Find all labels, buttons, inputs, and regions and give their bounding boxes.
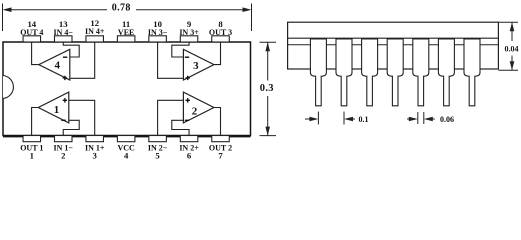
wire U2 output to pin 7 bbox=[214, 108, 221, 136]
package side view body bbox=[288, 22, 499, 69]
side view ledge line bbox=[288, 44, 499, 46]
op-amp U4 bbox=[39, 49, 70, 80]
dimension 0.04 (body thickness, right of side view) bbox=[498, 22, 518, 70]
notch (pin-1 index) bbox=[3, 76, 13, 99]
pin 8 label OUT 3 bbox=[209, 19, 232, 37]
dimension 0.3 (package width, right of top view) bbox=[260, 42, 277, 135]
pin 14 label OUT 4 bbox=[20, 19, 43, 37]
op-amp U3 bbox=[183, 49, 214, 80]
svg-text:IN 3−: IN 3− bbox=[148, 28, 168, 37]
wire pin 13 to U4 inverting input bbox=[63, 42, 79, 57]
pin 5 label IN 2- bbox=[148, 144, 168, 161]
pin 5 box bbox=[149, 136, 167, 142]
svg-text:OUT 4: OUT 4 bbox=[20, 28, 43, 37]
svg-text:3: 3 bbox=[193, 60, 199, 72]
pin 3 box bbox=[86, 136, 104, 142]
svg-text:1: 1 bbox=[54, 104, 60, 116]
pin 2 box bbox=[55, 136, 73, 142]
svg-text:IN 3+: IN 3+ bbox=[179, 28, 199, 37]
dimension 0.78 (package length, top) bbox=[3, 4, 252, 32]
pin 4 label VCC bbox=[117, 144, 135, 161]
op-amp U2 bbox=[183, 92, 214, 123]
svg-text:0.06: 0.06 bbox=[440, 115, 454, 124]
side view lead 2 bbox=[336, 39, 352, 106]
side view lead 3 bbox=[362, 39, 378, 106]
svg-text:5: 5 bbox=[155, 150, 160, 160]
pin 6 label IN 2+ bbox=[179, 144, 199, 161]
pin 13 label IN 4- bbox=[54, 19, 74, 37]
wire pin 12 to U4 non-inverting input bbox=[70, 42, 95, 78]
svg-text:IN 4+: IN 4+ bbox=[85, 27, 105, 36]
wire pin 2 to U1 inverting input bbox=[63, 120, 79, 135]
svg-text:4: 4 bbox=[54, 60, 60, 72]
wire pin 5 to U2 non-inverting input bbox=[158, 100, 184, 135]
pin 11 label VEE bbox=[118, 19, 134, 37]
wire pin 3 to U1 non-inverting input bbox=[69, 100, 95, 135]
side view lead 6 bbox=[438, 39, 454, 106]
svg-text:6: 6 bbox=[187, 150, 192, 160]
pin 1 box bbox=[23, 136, 41, 142]
pin 4 box bbox=[117, 136, 134, 142]
wire U1 output to pin 1 bbox=[32, 108, 39, 136]
pin 10 box bbox=[149, 36, 167, 42]
pin 8 box bbox=[212, 36, 230, 42]
side view lead 1 bbox=[310, 39, 326, 106]
side view mold seam line bbox=[288, 37, 499, 39]
wire pin 6 to U2 inverting input bbox=[172, 120, 189, 135]
pin 10 label IN 3- bbox=[148, 19, 168, 37]
pin 7 label OUT 2 bbox=[209, 144, 232, 161]
side view lead 5 bbox=[413, 39, 429, 106]
pin 12 label IN 4+ bbox=[85, 18, 105, 36]
pin 9 box bbox=[180, 36, 198, 42]
pin 1 label OUT 1 bbox=[20, 144, 43, 161]
svg-text:IN 4−: IN 4− bbox=[54, 28, 74, 37]
dimension 0.06 (lead width) bbox=[407, 112, 435, 124]
side view lead 4 bbox=[387, 39, 403, 106]
svg-text:2: 2 bbox=[61, 150, 65, 160]
pin 11 box bbox=[117, 36, 134, 42]
wire U3 output to pin 8 bbox=[214, 42, 221, 65]
svg-text:2: 2 bbox=[192, 105, 198, 117]
op-amp U1 bbox=[38, 92, 69, 123]
side view lead 7 bbox=[464, 39, 480, 106]
pin 12 box bbox=[86, 36, 104, 42]
pin 9 label IN 3+ bbox=[179, 19, 199, 37]
IC body DIP-14 top view bbox=[3, 42, 251, 136]
wire pin 10 to U3 non-inverting input bbox=[158, 42, 184, 78]
dimension 0.1 (lead pitch) bbox=[305, 112, 355, 125]
pin 6 box bbox=[180, 136, 198, 142]
svg-text:0.1: 0.1 bbox=[359, 115, 369, 124]
svg-text:3: 3 bbox=[93, 150, 98, 160]
svg-text:VEE: VEE bbox=[118, 28, 134, 37]
wire pin 9 to U3 inverting input bbox=[172, 42, 189, 57]
pin 3 label IN 1+ bbox=[85, 144, 105, 161]
svg-text:7: 7 bbox=[218, 150, 223, 160]
svg-text:0.78: 0.78 bbox=[112, 2, 131, 13]
wire U4 output to pin 14 bbox=[32, 42, 39, 65]
svg-text:0.04: 0.04 bbox=[505, 44, 519, 53]
svg-text:4: 4 bbox=[124, 150, 129, 160]
svg-text:0.3: 0.3 bbox=[260, 83, 274, 94]
pin 13 box bbox=[55, 36, 73, 42]
svg-text:1: 1 bbox=[30, 150, 34, 160]
pin 2 label IN 1- bbox=[54, 144, 74, 161]
pin 14 box bbox=[23, 36, 41, 42]
svg-text:OUT 3: OUT 3 bbox=[209, 28, 232, 37]
pin 7 box bbox=[212, 136, 230, 142]
